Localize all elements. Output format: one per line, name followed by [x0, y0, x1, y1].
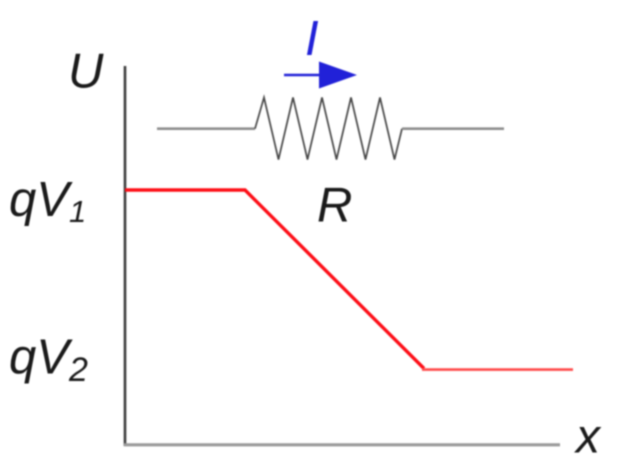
svg-text:I: I [305, 12, 319, 66]
svg-text:qV2: qV2 [9, 331, 88, 390]
energy curve lower flat qV2 [422, 368, 573, 371]
x-axis [124, 443, 560, 446]
wire left of resistor [157, 127, 255, 130]
resistor R1 zigzag [255, 98, 402, 160]
current arrow head [319, 62, 357, 89]
y-axis (U axis) [124, 66, 127, 446]
svg-text:R: R [317, 179, 352, 233]
wire right of resistor [402, 127, 504, 130]
svg-text:x: x [574, 411, 602, 464]
svg-text:U: U [68, 45, 104, 99]
current arrow shaft [284, 74, 325, 77]
svg-text:qV1: qV1 [9, 173, 86, 229]
energy curve upper flat qV1 [125, 190, 424, 369]
